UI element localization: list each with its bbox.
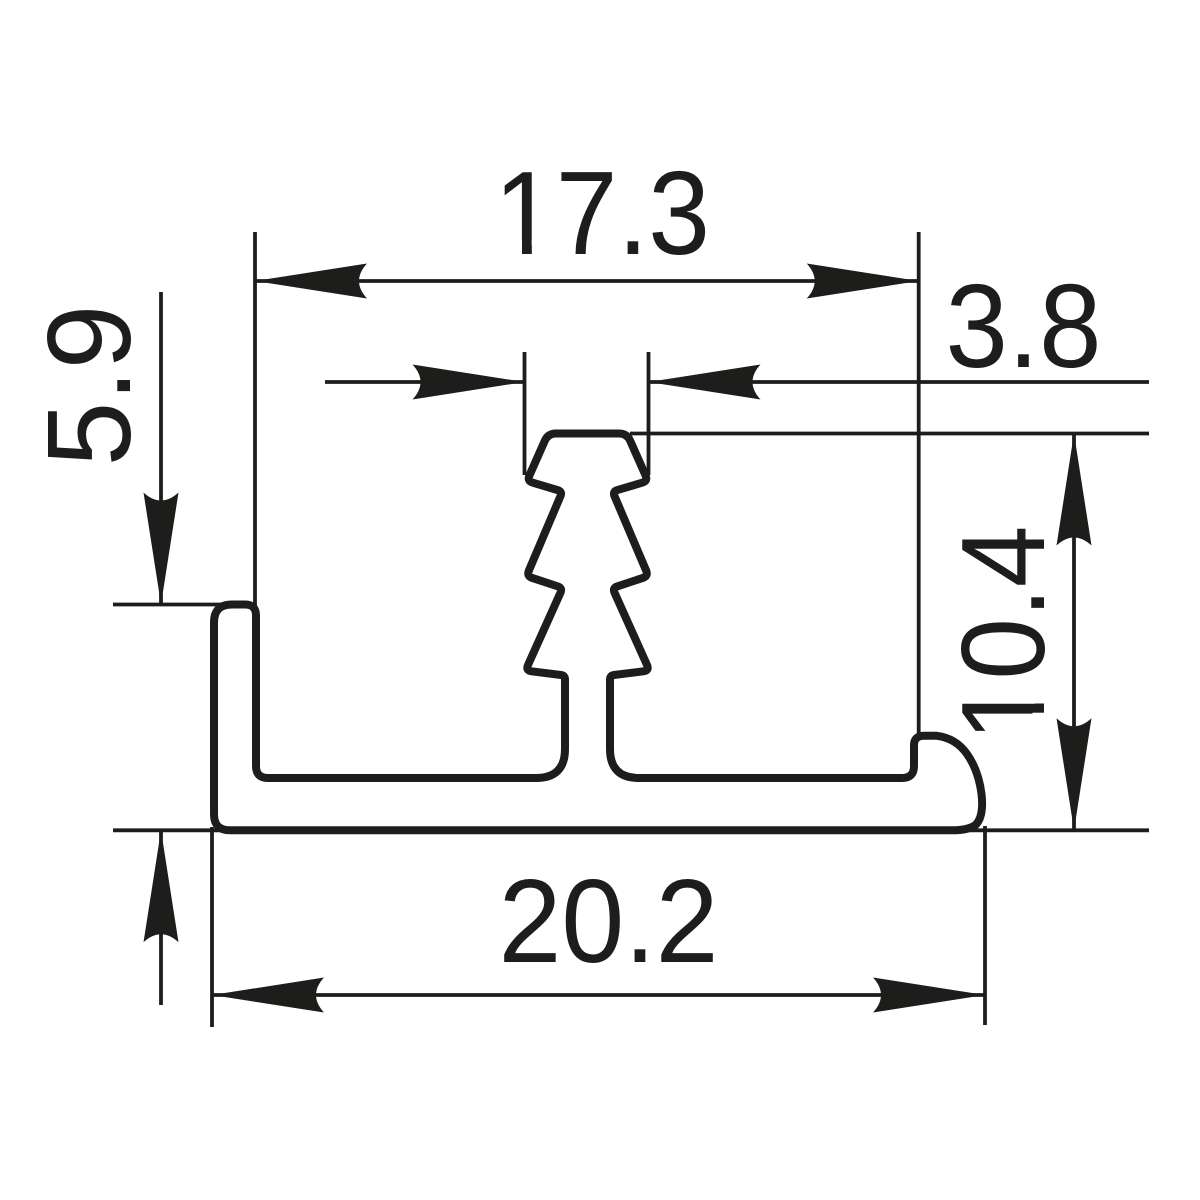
dimension line 3.8 left tail [325, 380, 525, 384]
dimension line 5.9 lower [159, 830, 163, 1005]
svg-text:3.8: 3.8 [946, 260, 1102, 393]
extension line 17.3 left [253, 232, 257, 609]
svg-text:10.4: 10.4 [937, 526, 1070, 742]
dimension line 17.3 [255, 279, 919, 283]
extension line 3.8 right [647, 352, 651, 475]
svg-text:20.2: 20.2 [499, 855, 719, 988]
dimension line 10.4 [1072, 434, 1076, 831]
extension line 3.8 left [523, 352, 527, 475]
extension line 20.2 left [210, 827, 214, 1027]
extension line 20.2 right [983, 826, 987, 1025]
spline top reference line (10.4 top) [630, 432, 1149, 436]
extension line 17.3 right [917, 232, 921, 740]
mask serif feet of "1" glyphs to match target font [500, 240, 522, 256]
dimension line 20.2 [212, 993, 985, 997]
baseline (bottom reference line, full width) [113, 828, 1149, 832]
flange top reference line (5.9 top) [113, 603, 252, 607]
profile outline (aluminium extrusion cross-section) [214, 434, 982, 831]
dimension line 5.9 upper [159, 292, 163, 605]
svg-text:5.9: 5.9 [23, 305, 156, 467]
dimension line 3.8 right tail [649, 380, 1150, 384]
svg-text:17.3: 17.3 [494, 147, 710, 280]
